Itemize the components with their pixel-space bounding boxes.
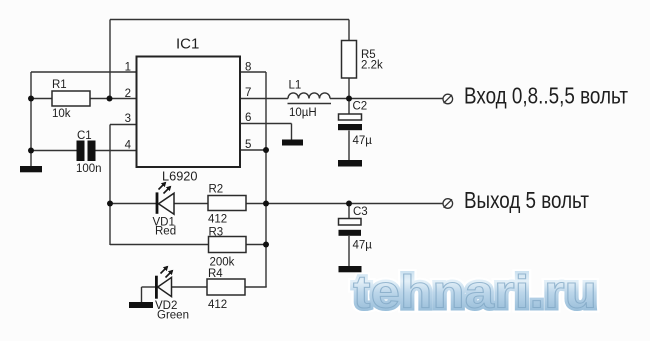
svg-text:R3: R3: [209, 227, 224, 239]
svg-text:tehnari.ru: tehnari.ru: [353, 266, 597, 318]
svg-text:8: 8: [245, 62, 251, 74]
svg-text:6: 6: [245, 112, 251, 124]
svg-text:L6920: L6920: [162, 170, 198, 184]
svg-text:5: 5: [245, 139, 251, 151]
svg-text:10µH: 10µH: [289, 107, 317, 119]
svg-text:Red: Red: [155, 226, 176, 238]
svg-text:C2: C2: [353, 101, 368, 113]
svg-text:C1: C1: [77, 130, 92, 142]
svg-text:L1: L1: [289, 80, 302, 92]
svg-text:R2: R2: [209, 184, 224, 196]
svg-text:7: 7: [245, 87, 251, 99]
svg-text:412: 412: [208, 214, 227, 226]
svg-text:R1: R1: [52, 79, 67, 91]
svg-text:2.2k: 2.2k: [361, 60, 383, 72]
svg-text:Green: Green: [157, 310, 189, 322]
svg-text:4: 4: [125, 140, 132, 152]
svg-text:3: 3: [125, 113, 131, 125]
svg-text:10k: 10k: [52, 108, 71, 120]
svg-text:Вход 0,8..5,5 вольт: Вход 0,8..5,5 вольт: [464, 83, 628, 109]
svg-text:C3: C3: [353, 206, 368, 218]
svg-text:47µ: 47µ: [353, 135, 373, 147]
svg-text:Выход 5 вольт: Выход 5 вольт: [464, 187, 589, 213]
svg-text:47µ: 47µ: [353, 240, 373, 252]
svg-text:200k: 200k: [210, 257, 235, 269]
svg-text:IC1: IC1: [176, 36, 199, 53]
svg-text:2: 2: [125, 88, 131, 100]
svg-text:R4: R4: [208, 268, 223, 280]
svg-text:412: 412: [208, 299, 227, 311]
svg-text:1: 1: [125, 62, 131, 74]
svg-text:100n: 100n: [76, 163, 102, 175]
